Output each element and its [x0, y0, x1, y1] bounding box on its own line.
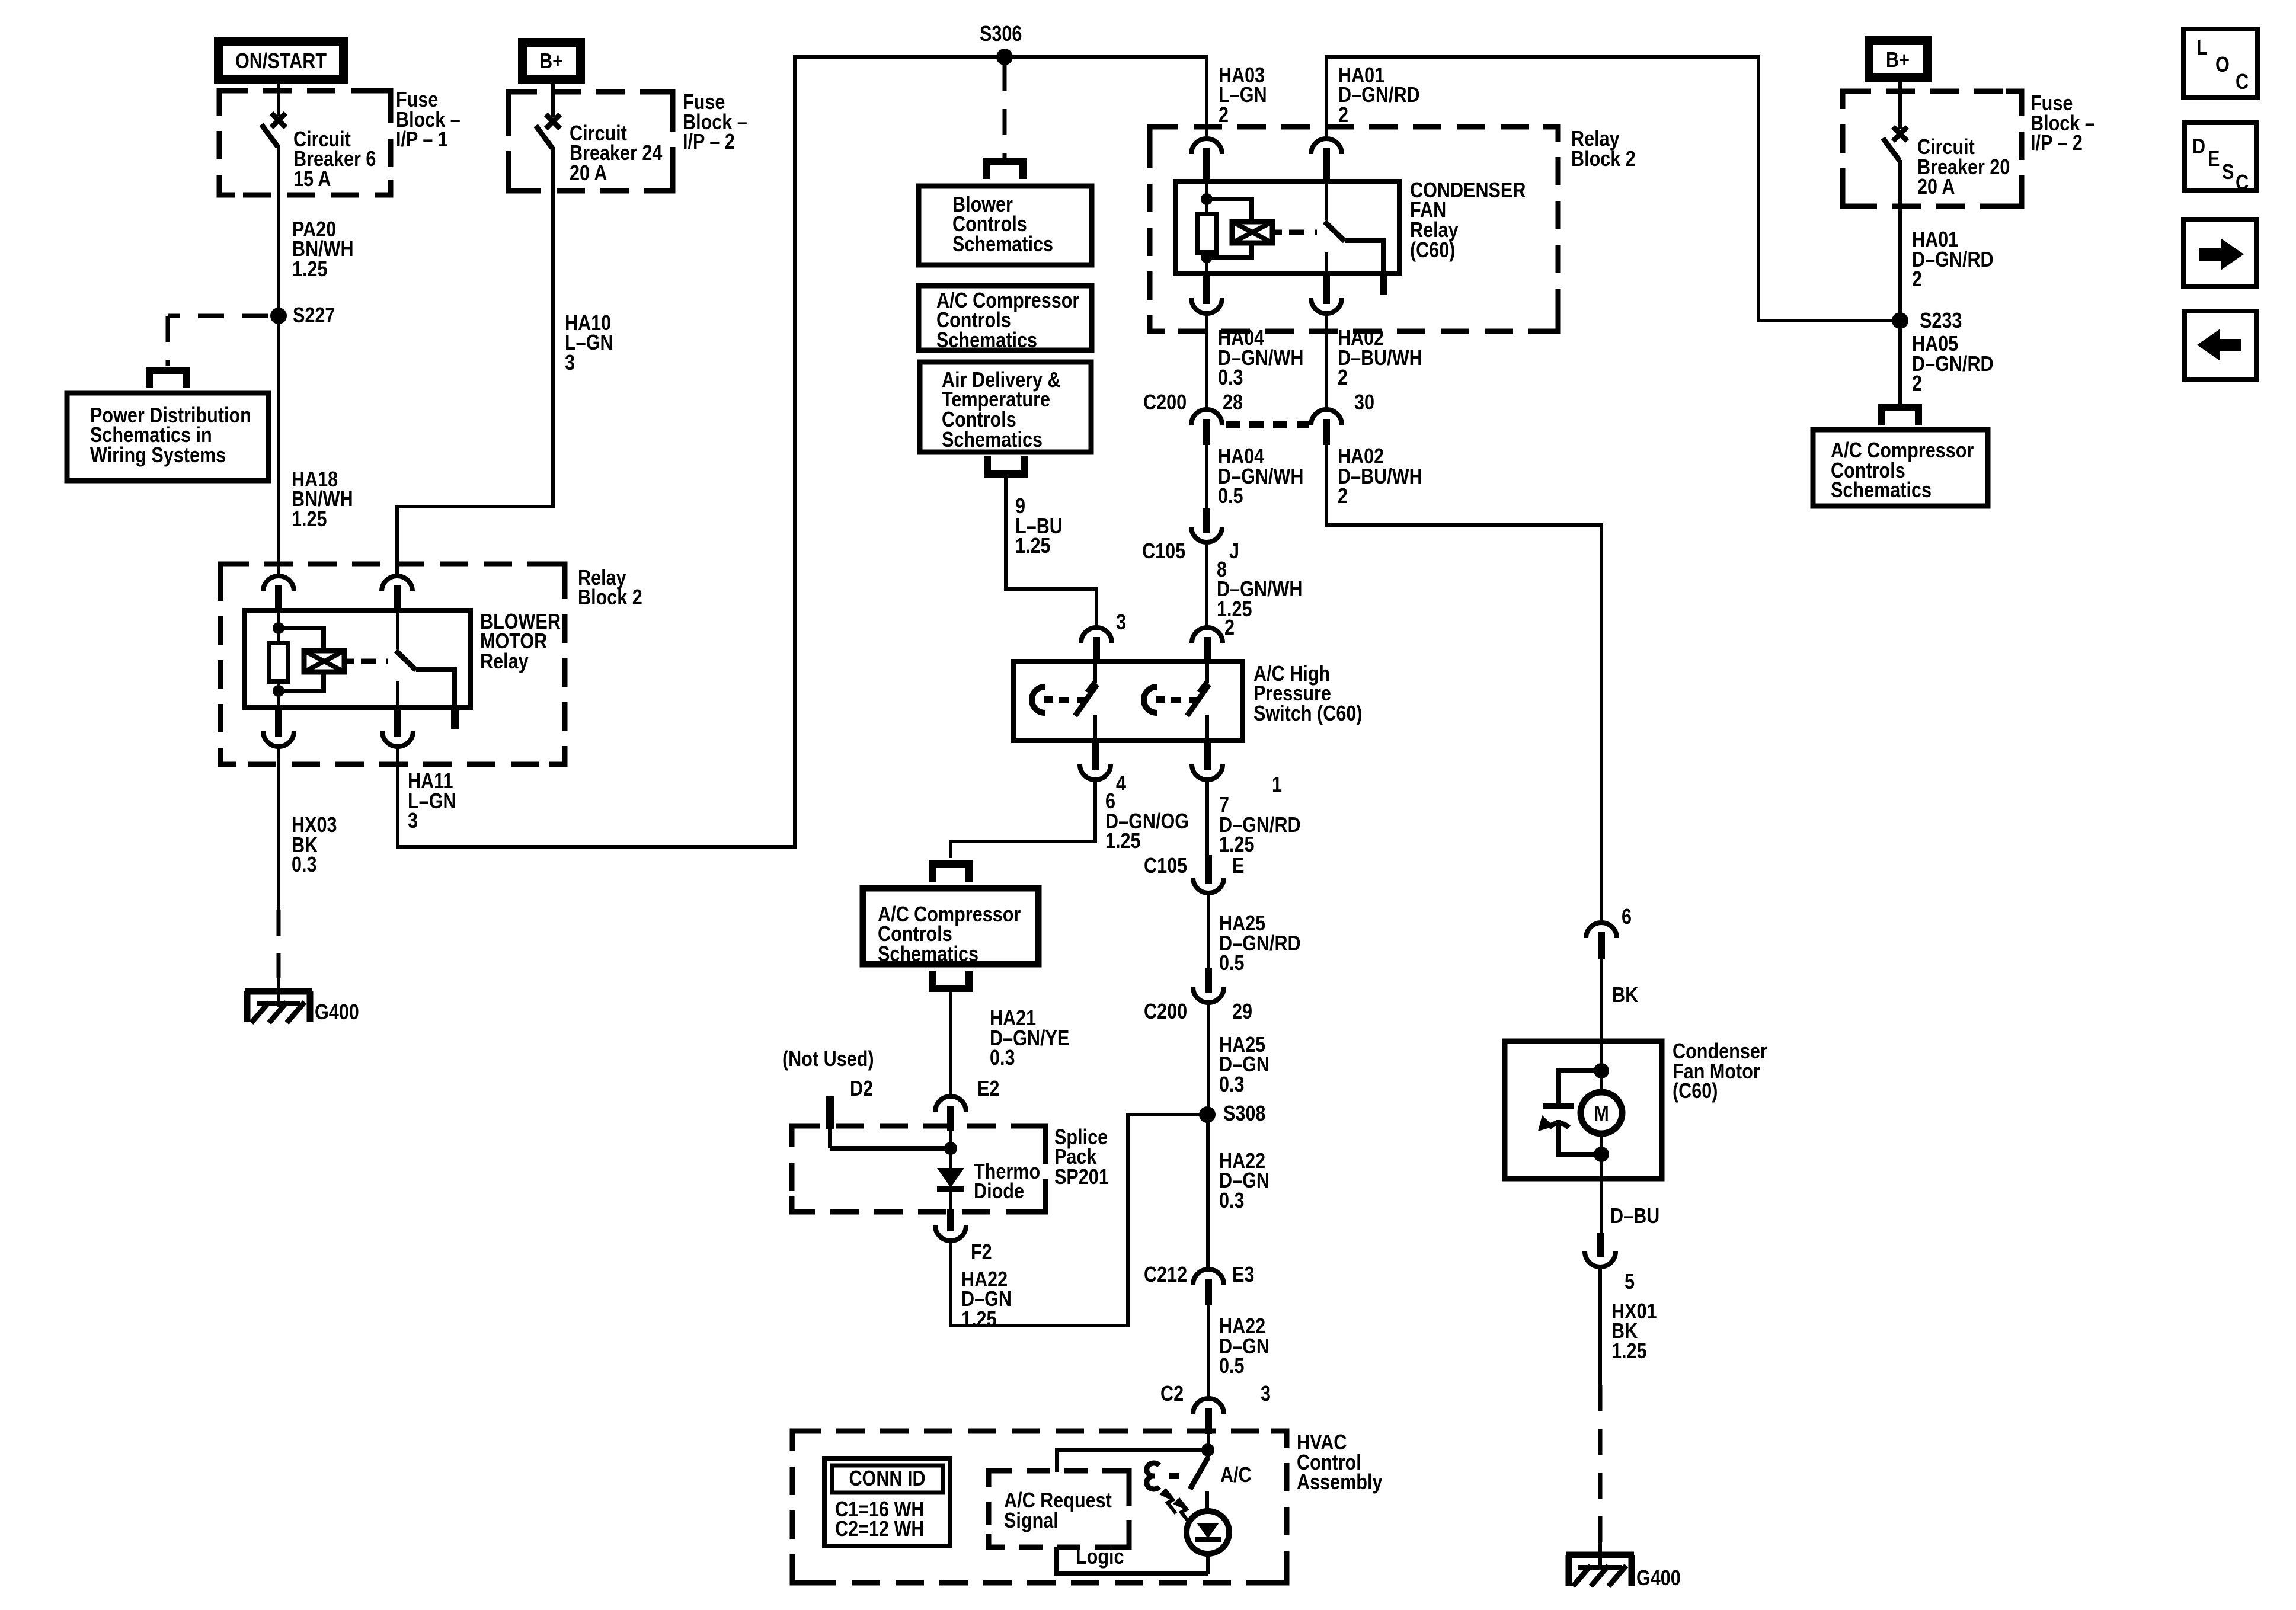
a/c compressor controls schematics box (top middle)	[919, 286, 1092, 350]
switch1 switch blade	[1075, 684, 1097, 716]
power feed box ON/START	[214, 37, 348, 84]
wire HA25 D-GN 0.3	[1207, 1003, 1210, 1115]
wire HA10 breaker24 down	[397, 147, 553, 574]
svg-text:E2: E2	[977, 1077, 999, 1101]
connector pin F2	[935, 1225, 966, 1241]
svg-text:S233: S233	[1920, 309, 1962, 333]
entry bracket a/c compressor mid box	[932, 864, 969, 882]
wire HA02 D-BU/WH 2 to condenser fan motor	[1326, 445, 1601, 923]
A/C switch contact curl	[1147, 1463, 1159, 1489]
blower relay: relay coil feed wire	[277, 610, 280, 643]
switch2 switch blade	[1187, 684, 1209, 716]
svg-text:6: 6	[1622, 905, 1632, 929]
svg-text:0.3: 0.3	[292, 853, 317, 877]
svg-text:S306: S306	[980, 23, 1022, 46]
HVAC control assembly dashed box	[792, 1431, 1287, 1583]
svg-text:2: 2	[1224, 616, 1235, 640]
wire into HVAC	[1207, 1434, 1210, 1450]
svg-text:2: 2	[1338, 366, 1348, 390]
svg-text:Schematics: Schematics	[1831, 479, 1932, 502]
svg-text:3: 3	[1116, 611, 1126, 635]
ground G400 (left)	[245, 988, 312, 995]
blower relay: switch NO branch wire	[416, 670, 455, 708]
splice pack SP201 dashed box	[792, 1126, 1045, 1212]
condenser relay: unused pin stub	[1380, 274, 1387, 295]
svg-text:(Not Used): (Not Used)	[782, 1048, 874, 1071]
svg-text:2: 2	[1338, 104, 1348, 127]
svg-text:ON/START: ON/START	[235, 50, 327, 73]
svg-text:Logic: Logic	[1076, 1545, 1124, 1569]
blower relay: unused pin stub	[451, 708, 459, 729]
wire B+ to breaker 20	[1898, 82, 1902, 129]
splice junction dot	[944, 1142, 957, 1155]
svg-text:E3: E3	[1232, 1263, 1254, 1287]
blower relay: switch output contact	[396, 681, 399, 708]
A/C switch dashed link	[1169, 1473, 1185, 1479]
svg-text:Assembly: Assembly	[1297, 1471, 1383, 1494]
wire HA04 D-GN/WH 0.3	[1205, 313, 1208, 409]
svg-text:0.3: 0.3	[1219, 1189, 1245, 1213]
A/C switch blade	[1206, 1450, 1210, 1459]
svg-text:C200: C200	[1143, 391, 1187, 415]
node S306	[996, 49, 1013, 65]
svg-text:B+: B+	[1886, 49, 1910, 72]
svg-text:D–GN/RD: D–GN/RD	[1912, 353, 1994, 376]
switch1 contact tick	[1087, 681, 1095, 692]
A/C request signal dashed box	[989, 1471, 1129, 1547]
CONN ID table	[824, 1458, 950, 1546]
exit bracket below air delivery box	[987, 456, 1024, 474]
wire HA04 D-GN/WH 0.5	[1205, 445, 1208, 510]
condenser relay: junction dot coil top	[1201, 193, 1213, 205]
switch2 contact tick	[1199, 681, 1207, 692]
connector pin 1 out	[1192, 764, 1223, 780]
wire 7 D-GN/RD 1.25	[1205, 781, 1209, 857]
dashed wire to G400	[277, 910, 281, 978]
motor junction dot top	[1594, 1063, 1609, 1078]
svg-text:C2=12 WH: C2=12 WH	[835, 1518, 924, 1541]
wire HX03 BK	[277, 747, 280, 910]
svg-text:Wiring Systems: Wiring Systems	[90, 444, 226, 468]
wire HA21 D-GN/YE 0.3	[949, 988, 952, 1096]
svg-text:Schematics: Schematics	[942, 428, 1043, 452]
wire HA22 D-GN 1.25	[951, 1115, 1207, 1326]
svg-text:D–GN/RD: D–GN/RD	[1338, 84, 1420, 107]
fuse block I/P-1 dashed box	[219, 91, 391, 195]
svg-text:29: 29	[1232, 1000, 1252, 1024]
ground G400 (right)	[1566, 1552, 1634, 1558]
svg-text:4: 4	[1116, 772, 1126, 796]
condenser relay: junction dot coil bottom	[1201, 251, 1213, 263]
legend box LOC	[2183, 29, 2257, 98]
blower relay: relay coil (X box)	[304, 651, 344, 672]
svg-text:D–BU/WH: D–BU/WH	[1338, 347, 1422, 370]
switch2 contact wire upper	[1205, 661, 1209, 683]
svg-text:0.3: 0.3	[1219, 1073, 1245, 1097]
svg-text:Schematics: Schematics	[936, 329, 1037, 353]
svg-text:I/P – 2: I/P – 2	[683, 130, 735, 154]
power feed box B+ (left)	[518, 38, 585, 84]
svg-text:2: 2	[1219, 104, 1229, 127]
svg-text:G400: G400	[1636, 1567, 1681, 1590]
svg-text:Block 2: Block 2	[1571, 148, 1636, 171]
svg-text:A/C: A/C	[1220, 1464, 1252, 1487]
condenser relay: coil loop wire top	[1207, 199, 1252, 222]
condenser relay: switch output contact	[1325, 252, 1328, 274]
condenser relay: switch NO branch wire	[1345, 241, 1383, 274]
svg-text:Switch (C60): Switch (C60)	[1253, 702, 1363, 726]
svg-text:1: 1	[1272, 773, 1282, 797]
logic solid outline	[1057, 1547, 1208, 1574]
junction dot A/C switch	[1201, 1443, 1214, 1457]
svg-text:15 A: 15 A	[293, 168, 331, 191]
wire B+ to breaker 24	[551, 84, 555, 117]
entry bracket power distribution	[149, 370, 186, 388]
wire PA20 breaker6 to S227	[277, 146, 280, 316]
wire HA22 D-GN 0.5	[1207, 1305, 1210, 1398]
svg-text:C105: C105	[1144, 854, 1187, 878]
wire HA18 S227 to relay block	[277, 316, 280, 574]
exit bracket below a/c compressor mid box	[932, 971, 969, 988]
svg-text:1.25: 1.25	[1611, 1340, 1647, 1363]
svg-text:0.3: 0.3	[1218, 366, 1243, 390]
svg-text:D–BU: D–BU	[1610, 1205, 1659, 1228]
legend box DESC	[2185, 123, 2256, 190]
connector pin 6 condenser fan motor	[1586, 923, 1617, 938]
switch1 diaphragm dashed link	[1059, 697, 1087, 703]
switch1 contact wire upper	[1093, 661, 1097, 683]
C200 connector dashed link	[1226, 421, 1309, 428]
svg-text:CONN ID: CONN ID	[849, 1467, 925, 1491]
svg-text:C: C	[2236, 171, 2249, 195]
switch1 pressure diaphragm	[1032, 687, 1045, 713]
svg-text:E: E	[1232, 854, 1244, 878]
splice bus wire	[830, 1146, 951, 1151]
capacitor branch	[1559, 1071, 1601, 1103]
svg-text:L: L	[2196, 36, 2208, 60]
connector pin blower relay coil out	[263, 731, 294, 747]
legend box left arrow	[2185, 311, 2256, 379]
a/c compressor controls schematics box (right)	[1813, 430, 1988, 506]
svg-text:C212: C212	[1144, 1263, 1187, 1287]
a/c compressor controls schematics box (middle)	[863, 888, 1038, 964]
blower relay: switch common wire	[396, 610, 399, 649]
svg-text:I/P – 1: I/P – 1	[396, 128, 448, 152]
condenser relay: relay coil feed wire	[1205, 181, 1208, 214]
svg-text:0.3: 0.3	[990, 1046, 1015, 1070]
connector pin condenser switch out	[1311, 298, 1342, 313]
svg-text:Diode: Diode	[974, 1180, 1024, 1204]
svg-text:S308: S308	[1223, 1102, 1265, 1126]
svg-text:O: O	[2215, 53, 2230, 77]
svg-text:1.25: 1.25	[1219, 833, 1255, 857]
svg-text:1.25: 1.25	[961, 1308, 997, 1331]
condenser relay: switch common wire	[1325, 181, 1328, 220]
switch1 contact wire lower	[1093, 715, 1097, 741]
wire HA25 D-GN/RD 0.5	[1207, 893, 1210, 968]
svg-text:E: E	[2208, 148, 2220, 171]
svg-text:S227: S227	[293, 304, 335, 328]
svg-text:Relay: Relay	[480, 650, 529, 674]
thermo diode	[949, 1148, 952, 1168]
wire to request logic	[1057, 1450, 1208, 1472]
svg-text:Signal: Signal	[1004, 1509, 1059, 1533]
circuit breaker 20	[1893, 127, 1907, 141]
svg-text:0.5: 0.5	[1219, 952, 1245, 975]
connector pin condenser switch in	[1311, 139, 1342, 154]
blower relay: switch blade	[396, 651, 416, 670]
blower relay: relay body	[245, 610, 471, 708]
svg-text:C200: C200	[1144, 1000, 1187, 1024]
wire HA01 D-GN/RD 2 (top)	[1326, 57, 1892, 321]
dashed wire S306 to blower controls	[1003, 65, 1007, 159]
svg-text:G400: G400	[315, 1001, 359, 1025]
fuse block I/P-2 dashed box (left)	[509, 92, 673, 191]
svg-text:(C60): (C60)	[1673, 1080, 1718, 1103]
connector pin 4 out	[1080, 764, 1111, 780]
motor junction dot bottom	[1594, 1147, 1609, 1162]
node S227	[270, 308, 287, 324]
svg-text:0.5: 0.5	[1218, 485, 1243, 508]
wire ON/START to breaker	[277, 84, 280, 116]
fuse block I/P-2 dashed box (right)	[1843, 91, 2022, 206]
svg-text:D–GN/RD: D–GN/RD	[1912, 248, 1994, 272]
svg-text:1.25: 1.25	[1015, 534, 1051, 558]
A/C high pressure switch box	[1013, 661, 1243, 741]
connector pin condenser coil in	[1191, 139, 1222, 154]
svg-text:S: S	[2222, 161, 2234, 184]
svg-text:1.25: 1.25	[292, 258, 328, 281]
connector pin 2 of pressure switch	[1192, 628, 1223, 643]
motor M circle	[1600, 1071, 1603, 1093]
relay block 2 dashed box (blower)	[220, 564, 565, 764]
svg-text:I/P – 2: I/P – 2	[2030, 132, 2083, 155]
switch2 pressure diaphragm	[1144, 687, 1157, 713]
wire HA11 L-GN 3	[398, 57, 1207, 847]
power distribution schematics box	[67, 393, 268, 481]
svg-text:20 A: 20 A	[570, 162, 607, 185]
svg-text:B+: B+	[539, 50, 563, 73]
condenser fan motor box	[1505, 1041, 1662, 1179]
svg-text:2: 2	[1912, 372, 1922, 396]
svg-text:M: M	[1594, 1102, 1609, 1126]
wire HA01 D-GN/RD 2 breaker to S233	[1898, 160, 1902, 406]
circuit breaker 24	[546, 114, 560, 129]
svg-text:C105: C105	[1142, 540, 1185, 564]
wire HA22 D-GN 0.3	[1206, 1115, 1210, 1268]
condenser relay: resistor (coil suppression)	[1197, 214, 1216, 252]
wire D-BU out of motor	[1600, 1154, 1603, 1234]
condenser relay: switch blade	[1325, 222, 1345, 241]
dashed wire to G400 (right)	[1598, 1385, 1603, 1542]
svg-text:D2: D2	[850, 1077, 873, 1101]
node S308	[1199, 1106, 1216, 1123]
condenser relay: coil-switch dashed link	[1289, 230, 1317, 235]
blower relay: coil loop wire bottom	[279, 672, 324, 691]
svg-text:1.25: 1.25	[292, 508, 327, 532]
svg-text:BK: BK	[1612, 984, 1638, 1007]
svg-text:3: 3	[1261, 1382, 1271, 1406]
LED emission arrows	[1178, 1499, 1189, 1523]
svg-text:2: 2	[1912, 268, 1922, 292]
svg-text:Schematics: Schematics	[952, 233, 1053, 257]
node S233	[1892, 312, 1908, 329]
svg-text:20 A: 20 A	[1917, 175, 1955, 199]
svg-text:J: J	[1229, 540, 1239, 564]
svg-text:30: 30	[1354, 391, 1374, 415]
blower relay: coil loop wire top	[279, 628, 324, 651]
wire HX01 BK 1.25	[1598, 1267, 1602, 1385]
svg-text:Block 2: Block 2	[578, 586, 642, 610]
svg-text:SP201: SP201	[1054, 1166, 1109, 1189]
connector pin 3 of pressure switch	[1081, 628, 1112, 643]
svg-text:3: 3	[408, 809, 418, 833]
svg-text:D–BU/WH: D–BU/WH	[1338, 465, 1422, 489]
blower relay: coil output stub	[344, 659, 354, 664]
circuit breaker 6	[271, 113, 286, 127]
svg-text:F2: F2	[971, 1241, 992, 1265]
legend box right arrow	[2183, 220, 2256, 287]
wire HA02 D-BU/WH 2 (upper)	[1325, 313, 1328, 409]
wire 9 L-BU 1.25	[1006, 474, 1096, 628]
switch2 diaphragm dashed link	[1171, 697, 1199, 703]
blower relay: resistor (coil suppression)	[269, 643, 288, 681]
entry bracket a/c compressor right box	[1882, 408, 1918, 425]
svg-text:1.25: 1.25	[1105, 830, 1141, 853]
blower controls schematics box	[919, 186, 1092, 265]
svg-text:3: 3	[565, 351, 575, 375]
svg-text:(C60): (C60)	[1410, 239, 1455, 263]
condenser relay: relay coil (X box)	[1232, 222, 1272, 243]
svg-text:28: 28	[1223, 391, 1243, 415]
dashed branch wire to power distribution	[168, 314, 268, 318]
connector pin blower relay switch in	[382, 576, 412, 591]
condenser relay: coil output stub	[1272, 230, 1282, 235]
condenser relay: coil loop wire bottom	[1207, 243, 1252, 257]
blower relay: junction dot coil top	[273, 622, 284, 634]
air delivery and temperature controls box	[920, 362, 1091, 452]
relay block 2 dashed box (condenser)	[1150, 127, 1558, 331]
condenser relay: relay body	[1175, 181, 1399, 274]
connector pin 5	[1585, 1251, 1616, 1267]
svg-text:C: C	[2236, 71, 2249, 94]
blower relay: junction dot coil bottom	[273, 685, 284, 697]
LED indicator	[1205, 1491, 1209, 1513]
connector pin blower relay switch out	[382, 731, 413, 747]
svg-text:C2: C2	[1160, 1382, 1184, 1406]
svg-text:5: 5	[1625, 1270, 1635, 1294]
power feed box B+ (right)	[1865, 36, 1932, 82]
blower relay: coil-switch dashed link	[361, 659, 388, 664]
wire BK into motor	[1600, 959, 1603, 1071]
switch2 contact wire lower	[1205, 715, 1209, 741]
entry bracket blower controls	[986, 161, 1023, 179]
svg-text:0.5: 0.5	[1219, 1355, 1245, 1378]
svg-text:D: D	[2192, 135, 2205, 159]
svg-text:2: 2	[1338, 485, 1348, 508]
wire 6 D-GN/OG 1.25	[951, 781, 1095, 858]
connector pin condenser coil out	[1191, 298, 1222, 313]
wire 8 D-GN/WH 1.25	[1205, 542, 1208, 628]
connector pin blower relay coil in	[263, 576, 294, 591]
svg-text:Schematics: Schematics	[878, 943, 978, 966]
